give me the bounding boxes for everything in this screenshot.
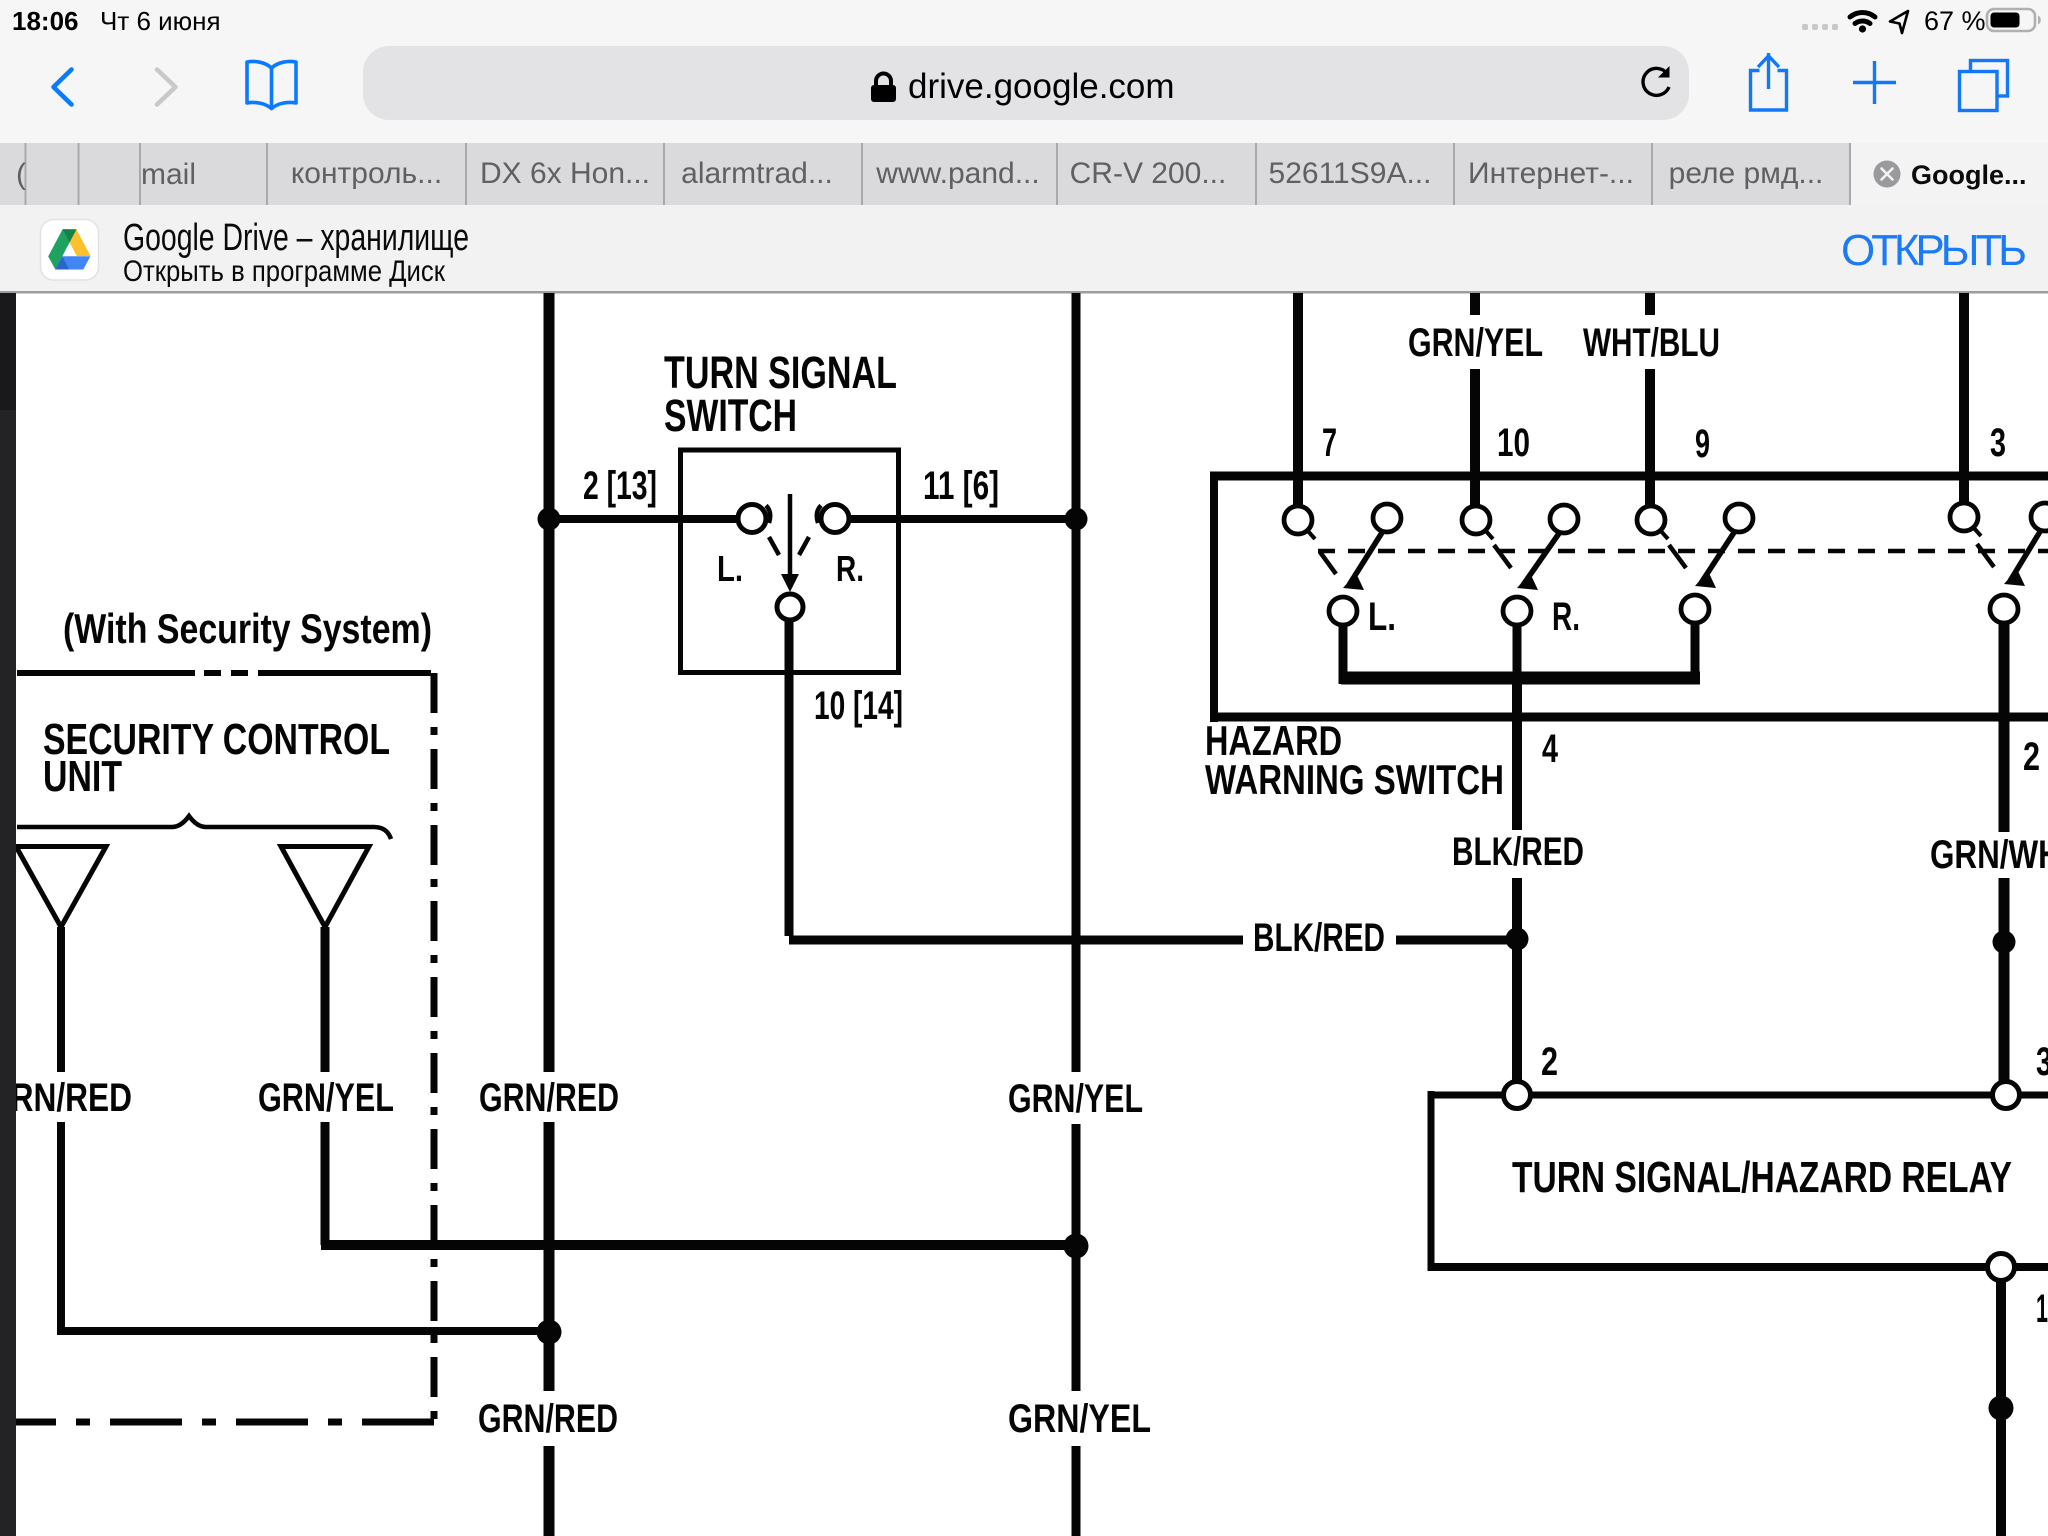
hazard blade1 pivot circle bbox=[1373, 504, 1401, 532]
white gap rect for label GRN/YEL bottom bbox=[1002, 1391, 1157, 1446]
svg-text:SWITCH: SWITCH bbox=[664, 390, 797, 441]
junction dot antenna2 to GRN/YEL bbox=[1064, 1234, 1089, 1259]
tab labels bbox=[16, 157, 1823, 191]
svg-text:GRN/YEL: GRN/YEL bbox=[258, 1076, 394, 1120]
svg-text:2 [13]: 2 [13] bbox=[583, 464, 657, 508]
junction dot BLK/RED bbox=[1506, 928, 1529, 951]
white gap rect for label GRN/WH bbox=[1922, 832, 2048, 878]
hazard warning switch box left edge bbox=[1210, 476, 1218, 722]
turn signal switch L contact circle bbox=[738, 505, 770, 533]
security control unit brace bbox=[17, 816, 391, 839]
wire hazard third contact stem bbox=[1691, 622, 1700, 684]
svg-text:3: 3 bbox=[1990, 421, 2006, 465]
svg-text:GRN/YEL: GRN/YEL bbox=[1008, 1397, 1151, 1441]
security antenna1 triangle bbox=[16, 847, 106, 928]
svg-text:Google...: Google... bbox=[1911, 160, 2027, 190]
hazard R output circle bbox=[1503, 597, 1531, 625]
svg-text:4: 4 bbox=[1542, 727, 1559, 771]
wire security antenna2 horizontal to GRN/YEL bbox=[321, 1240, 1076, 1250]
hazard switch blade 2 bbox=[1517, 532, 1560, 590]
svg-text:11 [6]: 11 [6] bbox=[923, 464, 999, 508]
hazard switch blade 3 bbox=[1695, 531, 1735, 588]
turn signal hazard relay box top edge bbox=[1428, 1092, 2048, 1099]
svg-text:GRN/RED: GRN/RED bbox=[0, 1076, 132, 1120]
svg-text:ОТКРЫТЬ: ОТКРЫТЬ bbox=[1841, 226, 2027, 275]
turn signal switch right blade dash bbox=[799, 537, 809, 555]
hazard switch gang dashed line bbox=[1318, 549, 2048, 554]
hazard L output circle bbox=[1329, 597, 1357, 625]
active tab close icon bbox=[1874, 161, 1901, 188]
tab bar background bbox=[0, 143, 2048, 205]
active tab background bbox=[1851, 143, 2048, 205]
google drive triangle logo bbox=[48, 229, 90, 269]
wire turn-signal output 10[14] bbox=[789, 619, 1513, 940]
svg-text:(: ( bbox=[16, 158, 26, 191]
wire pin3 vertical x1964 bbox=[1959, 293, 1969, 505]
reload icon bbox=[1643, 66, 1669, 95]
svg-text:www.pand...: www.pand... bbox=[875, 157, 1039, 190]
svg-text:реле рмд...: реле рмд... bbox=[1669, 157, 1824, 190]
svg-text:Открыть в программе Диск: Открыть в программе Диск bbox=[123, 255, 446, 288]
svg-text:L.: L. bbox=[1368, 595, 1396, 639]
hazard switch gang tick 1 bbox=[1320, 552, 1336, 574]
turn signal switch R contact circle bbox=[817, 505, 849, 533]
svg-text:DX 6x Hon...: DX 6x Hon... bbox=[480, 157, 650, 190]
svg-text:1: 1 bbox=[2036, 1287, 2048, 1331]
svg-text:UNIT: UNIT bbox=[43, 752, 122, 801]
white gap rect for label BLK/RED vertical bbox=[1444, 830, 1592, 878]
hazard warning switch box top edge bbox=[1210, 472, 2048, 481]
hazard pin7 contact circle bbox=[1284, 506, 1315, 539]
wire BLK/RED vertical pin4 to relay pin2 bbox=[1512, 683, 1522, 1083]
wire security antenna2 stem bbox=[321, 927, 330, 1245]
svg-text:(With Security System): (With Security System) bbox=[63, 605, 432, 652]
svg-text:52611S9A...: 52611S9A... bbox=[1269, 157, 1432, 190]
svg-text:9: 9 bbox=[1695, 422, 1710, 466]
wire GRN/WH vertical to relay pin3 bbox=[1999, 620, 2010, 1083]
wire relay pin1 output bbox=[1996, 1280, 2006, 1536]
svg-text:WHT/BLU: WHT/BLU bbox=[1583, 321, 1720, 365]
lock icon bbox=[871, 74, 896, 103]
left dark strip bbox=[0, 293, 16, 410]
url field bbox=[363, 46, 1689, 120]
wire hazard L contact stem bbox=[1339, 624, 1348, 684]
back chevron bbox=[54, 70, 72, 105]
smart banner background bbox=[0, 205, 2048, 292]
relay pin3 terminal circle bbox=[1993, 1082, 2020, 1109]
white gap rect for label GRN/RED mid bbox=[473, 1072, 625, 1122]
svg-text:mail: mail bbox=[141, 158, 196, 191]
svg-text:3: 3 bbox=[2036, 1040, 2048, 1084]
svg-text:alarmtrad...: alarmtrad... bbox=[681, 157, 833, 190]
junction dot relay pin1 wire bbox=[1989, 1396, 2014, 1421]
white gap rect for label GRN/YEL top bbox=[1400, 315, 1551, 369]
hazard switch blade 1 bbox=[1343, 531, 1383, 590]
svg-text:CR-V 200...: CR-V 200... bbox=[1070, 157, 1227, 190]
hazard blade3 pivot circle bbox=[1725, 504, 1753, 532]
location arrow icon bbox=[1890, 11, 1908, 33]
security control unit box right edge dashed bbox=[431, 673, 438, 1422]
white gap rect for label BLK/RED horizontal bbox=[1243, 916, 1396, 962]
hazard switch gang tick 2 bbox=[1494, 545, 1511, 568]
junction dot GRN/WH bbox=[1993, 931, 2016, 954]
svg-text:L.: L. bbox=[717, 548, 743, 589]
junction dot antenna1 to GRN/RED bbox=[537, 1320, 562, 1345]
wire hazard common bus bbox=[1341, 672, 1700, 685]
hazard blade4 pivot circle bbox=[2031, 503, 2048, 531]
tab dividers bbox=[26, 143, 1851, 205]
svg-text:Интернет-...: Интернет-... bbox=[1468, 157, 1634, 190]
svg-text:WARNING SWITCH: WARNING SWITCH bbox=[1205, 756, 1504, 803]
svg-text:GRN/RED: GRN/RED bbox=[478, 1397, 618, 1441]
svg-text:GRN/RED: GRN/RED bbox=[479, 1076, 619, 1120]
security antenna2 triangle bbox=[281, 847, 369, 928]
svg-text:10 [14]: 10 [14] bbox=[814, 684, 903, 728]
hazard fourth output circle GRN/WH bbox=[1990, 595, 2018, 623]
svg-text:GRN/YEL: GRN/YEL bbox=[1008, 1077, 1143, 1121]
tabs overview icon bbox=[1960, 61, 2008, 111]
label HAZARD WARNING SWITCH bbox=[1205, 717, 1504, 803]
svg-text:18:06: 18:06 bbox=[12, 6, 79, 36]
relay pin2 terminal circle bbox=[1504, 1082, 1531, 1109]
label TURN SIGNAL SWITCH bbox=[664, 347, 897, 441]
turn signal switch box bbox=[681, 450, 899, 673]
svg-text:R.: R. bbox=[1552, 595, 1580, 639]
svg-text:drive.google.com: drive.google.com bbox=[908, 67, 1175, 106]
svg-text:10: 10 bbox=[1497, 421, 1530, 465]
wire GRN/RED vertical x549 bbox=[544, 293, 555, 1536]
wire pin9 WHT/BLU vertical x1650 bbox=[1645, 293, 1655, 508]
turn signal hazard relay box left edge bbox=[1428, 1091, 1435, 1267]
wifi icon bbox=[1850, 12, 1875, 32]
svg-text:Google Drive – хранилище: Google Drive – хранилище bbox=[123, 217, 469, 259]
wire turn-signal row horizontal y519 bbox=[549, 515, 1076, 523]
svg-text:7: 7 bbox=[1322, 421, 1337, 465]
turn signal switch left blade dash bbox=[769, 537, 779, 555]
white gap rect for label GRN/YEL antenna2 bbox=[252, 1072, 400, 1122]
svg-text:R.: R. bbox=[836, 548, 864, 589]
wire security antenna1 stem bbox=[57, 927, 65, 1331]
hazard pin10 contact circle bbox=[1462, 506, 1493, 539]
hazard pin3 contact circle bbox=[1950, 503, 1981, 536]
white gap rect for label GRN/RED left clipped bbox=[0, 1072, 135, 1122]
share icon bbox=[1751, 53, 1787, 110]
white gap rect for label GRN/RED bottom bbox=[472, 1391, 624, 1446]
hazard switch gang tick 3 bbox=[1669, 545, 1686, 568]
hazard pin9 contact circle bbox=[1637, 506, 1668, 539]
google drive icon card bbox=[41, 220, 99, 281]
svg-text:2: 2 bbox=[2023, 735, 2040, 779]
white gap rect for label GRN/YEL mid bbox=[1002, 1072, 1149, 1124]
svg-text:GRN/YEL: GRN/YEL bbox=[1408, 321, 1543, 365]
hazard warning switch box bottom edge bbox=[1210, 713, 2048, 722]
security control unit box top edge dash-dot bbox=[17, 670, 431, 676]
cellular signal dots bbox=[1802, 24, 1838, 30]
svg-text:TURN SIGNAL/HAZARD RELAY: TURN SIGNAL/HAZARD RELAY bbox=[1512, 1153, 2012, 1202]
new tab plus icon bbox=[1853, 61, 1896, 104]
label SECURITY CONTROL UNIT bbox=[43, 715, 390, 801]
security control unit box bottom edge dash-dot bbox=[16, 1419, 434, 1426]
wire pin10 GRN/YEL vertical x1475 bbox=[1470, 293, 1480, 508]
turn signal hazard relay box bottom edge bbox=[1428, 1263, 2048, 1271]
junction dot GRN/YEL turn signal row bbox=[1065, 508, 1088, 531]
status bar and toolbar background bbox=[0, 0, 2048, 143]
svg-text:BLK/RED: BLK/RED bbox=[1253, 916, 1385, 960]
turn signal switch common circle bbox=[777, 594, 803, 620]
relay pin1 terminal circle bbox=[1988, 1254, 2015, 1281]
hazard third output circle bbox=[1681, 595, 1709, 623]
wire pin7 vertical x1298 bbox=[1293, 293, 1303, 508]
svg-text:BLK/RED: BLK/RED bbox=[1452, 830, 1584, 874]
wire security antenna1 horizontal to GRN/RED bbox=[57, 1327, 549, 1335]
svg-text:Чт 6 июня: Чт 6 июня bbox=[100, 6, 221, 36]
wire hazard R contact stem bbox=[1513, 624, 1522, 684]
svg-text:GRN/WHT: GRN/WHT bbox=[1930, 833, 2048, 877]
banner bottom border bbox=[0, 291, 2048, 294]
white gap rect for label WHT/BLU top bbox=[1575, 315, 1728, 369]
junction dot GRN/RED turn signal row bbox=[538, 508, 561, 531]
wire GRN/YEL vertical x1076 bbox=[1072, 293, 1081, 1536]
battery icon bbox=[1987, 9, 2041, 31]
svg-text:контроль...: контроль... bbox=[291, 157, 442, 190]
svg-text:2: 2 bbox=[1541, 1040, 1558, 1084]
hazard blade2 pivot circle bbox=[1550, 505, 1578, 533]
hazard switch gang tick 4 bbox=[1977, 544, 1994, 567]
hazard switch blade 4 bbox=[2004, 530, 2041, 586]
bookmarks book icon bbox=[247, 61, 296, 108]
turn signal switch selector arrow bbox=[781, 494, 799, 592]
svg-text:67 %: 67 % bbox=[1924, 6, 1986, 36]
forward chevron bbox=[157, 70, 176, 105]
